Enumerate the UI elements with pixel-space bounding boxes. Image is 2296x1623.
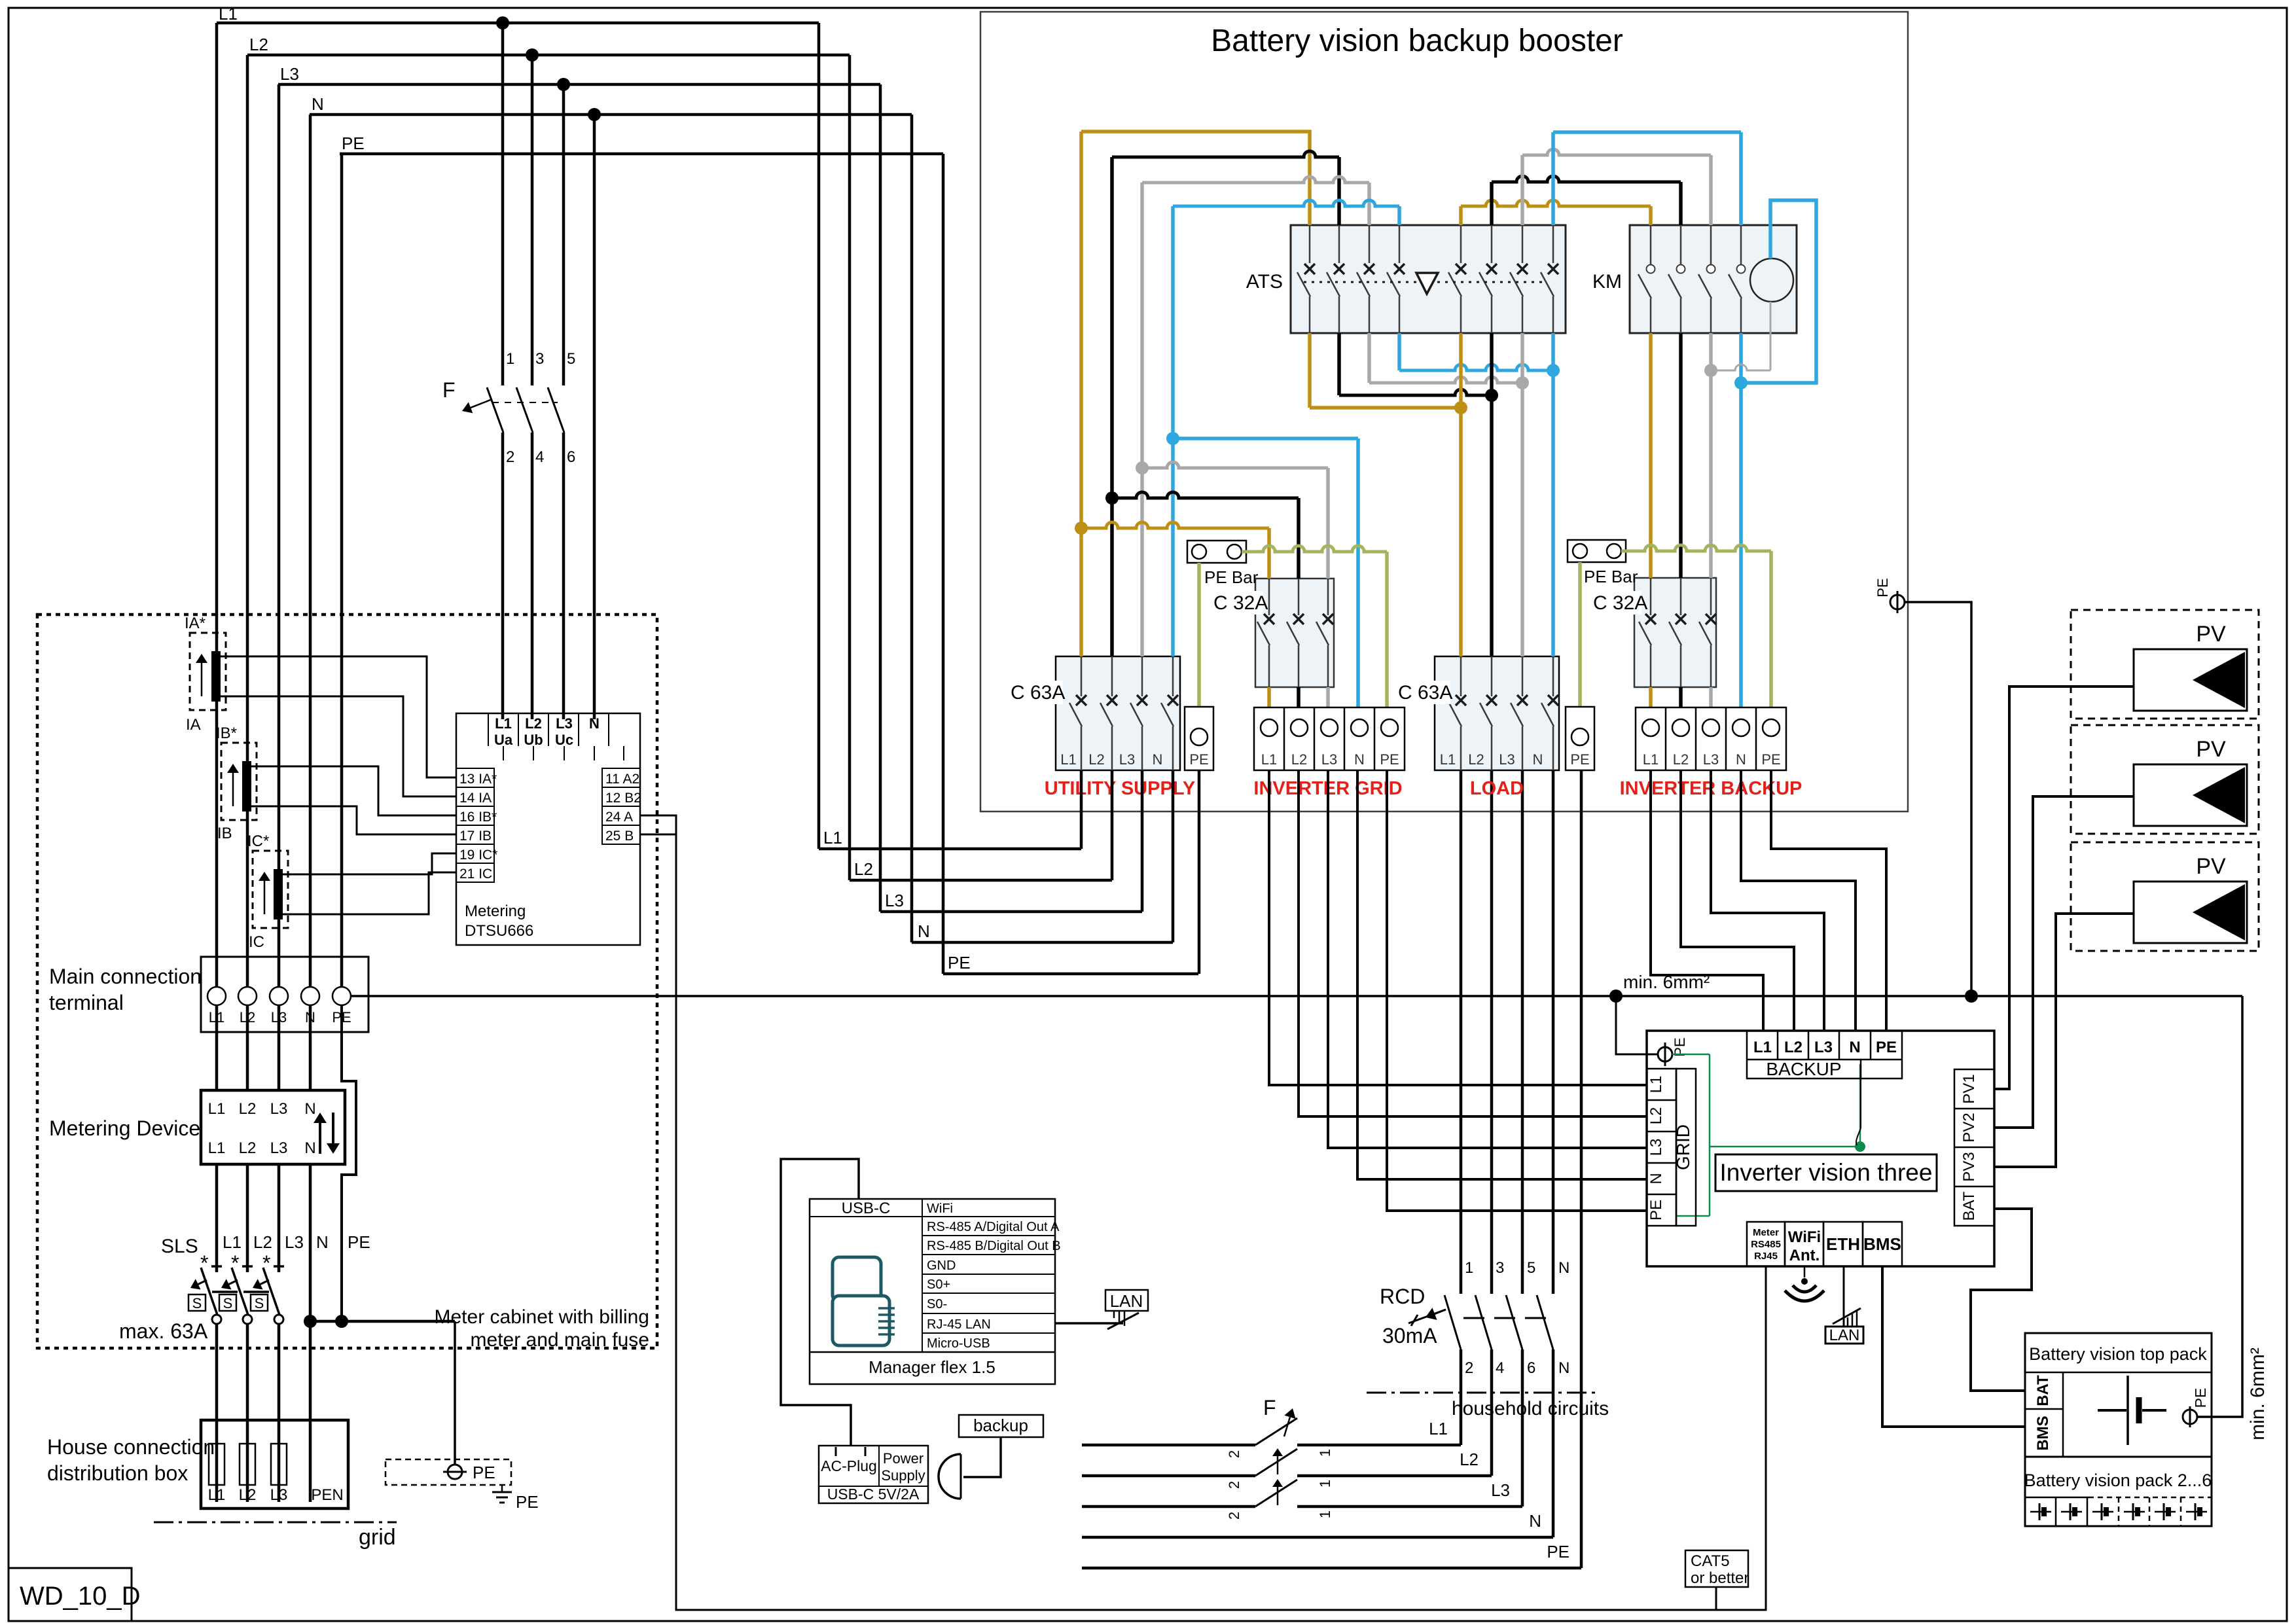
svg-text:PE: PE [348,1232,370,1252]
svg-text:S0+: S0+ [927,1277,950,1292]
svg-text:PE Bar: PE Bar [1584,567,1638,586]
svg-text:Battery vision top pack: Battery vision top pack [2029,1344,2207,1364]
svg-text:Ua: Ua [494,732,513,748]
svg-text:14 IA: 14 IA [459,791,492,806]
svg-text:IC*: IC* [247,832,269,850]
svg-text:N: N [316,1232,329,1252]
svg-text:L1: L1 [1440,751,1456,768]
svg-text:RJ-45 LAN: RJ-45 LAN [927,1317,991,1332]
svg-text:Micro-USB: Micro-USB [927,1336,990,1351]
svg-text:L2: L2 [525,715,542,732]
svg-text:1: 1 [1317,1449,1333,1457]
svg-text:Manager flex 1.5: Manager flex 1.5 [869,1357,996,1377]
svg-text:4: 4 [535,448,544,466]
svg-text:IA: IA [186,716,201,734]
svg-text:L3: L3 [1321,751,1337,768]
svg-text:N: N [1354,751,1365,768]
svg-text:N: N [589,715,600,732]
svg-text:PE: PE [948,953,971,972]
svg-text:BMS: BMS [2034,1416,2052,1450]
svg-text:Supply: Supply [881,1467,925,1484]
svg-text:L2: L2 [239,1100,257,1118]
svg-text:KM: KM [1592,271,1622,293]
svg-text:L1: L1 [1647,1076,1665,1094]
svg-text:meter and main fuse: meter and main fuse [471,1329,649,1351]
svg-text:BAT: BAT [1960,1191,1978,1221]
svg-text:C 63A: C 63A [1398,682,1452,704]
svg-text:PE: PE [1874,578,1891,597]
svg-text:L3: L3 [1499,751,1515,768]
svg-text:N: N [1736,751,1746,768]
svg-text:LOAD: LOAD [1470,778,1524,799]
svg-text:RCD: RCD [1380,1285,1425,1308]
svg-text:L2: L2 [1460,1450,1479,1469]
svg-text:C 32A: C 32A [1213,592,1268,614]
svg-text:C 63A: C 63A [1011,682,1065,704]
svg-text:S: S [255,1295,264,1311]
svg-text:L3: L3 [1703,751,1719,768]
svg-text:L1: L1 [208,1139,226,1157]
svg-text:2: 2 [1226,1512,1242,1520]
svg-text:PE: PE [1761,751,1780,768]
svg-text:12 B2: 12 B2 [605,791,641,806]
svg-text:IB: IB [217,825,232,842]
svg-text:1: 1 [506,350,514,368]
svg-text:L1: L1 [223,1232,242,1252]
svg-text:S: S [223,1295,233,1311]
svg-text:PE: PE [342,134,365,153]
svg-text:SLS: SLS [161,1236,198,1257]
svg-text:N: N [918,921,930,941]
svg-text:PE: PE [2192,1388,2209,1408]
svg-text:PV: PV [2196,622,2226,647]
svg-text:L3: L3 [1814,1039,1833,1056]
svg-text:ETH: ETH [1826,1234,1860,1254]
svg-text:3: 3 [1496,1259,1504,1277]
svg-text:Metering: Metering [465,902,526,920]
svg-text:PV1: PV1 [1960,1074,1978,1103]
svg-text:F: F [442,378,456,402]
svg-text:L3: L3 [1491,1480,1510,1500]
svg-text:WiFi: WiFi [927,1202,953,1216]
svg-text:L2: L2 [239,1486,257,1504]
svg-text:RS-485 A/Digital Out A: RS-485 A/Digital Out A [927,1220,1060,1234]
svg-text:13 IA*: 13 IA* [459,772,497,787]
svg-text:N: N [1529,1511,1541,1531]
svg-text:max. 63A: max. 63A [119,1319,208,1343]
svg-text:PEN: PEN [311,1486,343,1504]
svg-text:PE: PE [516,1492,539,1512]
svg-text:RS-485 B/Digital Out B: RS-485 B/Digital Out B [927,1239,1061,1253]
svg-text:6: 6 [1527,1359,1535,1377]
svg-text:S: S [192,1295,202,1311]
svg-text:House connection: House connection [47,1435,215,1459]
svg-text:17 IB: 17 IB [459,829,492,844]
svg-text:PV2: PV2 [1960,1113,1978,1142]
svg-text:BACKUP: BACKUP [1766,1059,1841,1079]
svg-text:PV3: PV3 [1960,1152,1978,1181]
svg-text:2: 2 [1226,1450,1242,1458]
svg-text:Meter cabinet with billing: Meter cabinet with billing [435,1306,650,1328]
svg-text:5: 5 [567,350,575,368]
svg-text:F: F [1263,1396,1276,1419]
svg-text:Main connection: Main connection [49,965,202,988]
svg-text:L3: L3 [270,1139,288,1157]
svg-text:IB*: IB* [216,724,237,742]
svg-text:2: 2 [1465,1359,1473,1377]
svg-text:PE: PE [1876,1039,1897,1056]
svg-text:1: 1 [1317,1480,1333,1488]
svg-text:Meter: Meter [1753,1227,1779,1238]
svg-text:N: N [312,94,324,114]
svg-text:PE: PE [1380,751,1399,768]
svg-text:L1: L1 [1753,1039,1772,1056]
svg-text:1: 1 [1317,1510,1333,1518]
svg-text:Battery vision backup booster: Battery vision backup booster [1211,24,1623,58]
svg-text:24 A: 24 A [605,810,633,825]
svg-text:USB-C 5V/2A: USB-C 5V/2A [827,1486,920,1503]
svg-text:WD_10_D: WD_10_D [20,1582,141,1611]
svg-text:L1: L1 [1261,751,1277,768]
svg-text:Inverter vision three: Inverter vision three [1720,1159,1933,1186]
svg-text:S0-: S0- [927,1297,947,1311]
svg-text:4: 4 [1496,1359,1504,1377]
svg-text:L1: L1 [219,4,238,24]
svg-text:2: 2 [1226,1481,1242,1489]
svg-text:L2: L2 [1647,1107,1665,1125]
svg-text:25 B: 25 B [605,829,634,844]
svg-text:L2: L2 [854,859,873,879]
svg-text:N: N [304,1100,315,1118]
svg-text:L1: L1 [208,1100,226,1118]
svg-text:terminal: terminal [49,991,124,1014]
svg-text:RS485: RS485 [1751,1239,1781,1250]
svg-text:L2: L2 [1784,1039,1803,1056]
svg-text:grid: grid [359,1525,396,1550]
svg-text:N: N [304,1139,315,1157]
svg-text:IA*: IA* [185,615,206,632]
svg-text:L1: L1 [1643,751,1659,768]
svg-text:PE: PE [1189,751,1208,768]
svg-text:PE: PE [1570,751,1589,768]
svg-text:CAT5: CAT5 [1691,1552,1730,1570]
svg-text:L3: L3 [270,1486,288,1504]
svg-text:PE: PE [1647,1200,1665,1221]
svg-text:BAT: BAT [2034,1375,2052,1406]
svg-text:L2: L2 [1468,751,1484,768]
svg-text:L1: L1 [823,828,842,847]
svg-text:L3: L3 [1119,751,1135,768]
svg-text:AC-Plug: AC-Plug [821,1457,877,1474]
svg-text:N: N [1558,1359,1570,1377]
svg-text:L3: L3 [556,715,573,732]
svg-text:DTSU666: DTSU666 [465,922,533,940]
svg-text:L3: L3 [285,1232,304,1252]
svg-text:PE: PE [1547,1542,1570,1561]
svg-text:6: 6 [567,448,575,466]
svg-text:N: N [1558,1259,1570,1277]
svg-text:21 IC: 21 IC [459,866,492,882]
svg-text:PE: PE [473,1463,495,1482]
svg-text:LAN: LAN [1829,1327,1860,1344]
svg-text:LAN: LAN [1110,1291,1143,1311]
svg-text:ATS: ATS [1246,271,1283,293]
svg-text:C 32A: C 32A [1593,592,1647,614]
svg-text:N: N [1849,1039,1860,1056]
svg-text:BMS: BMS [1863,1234,1901,1254]
svg-text:5: 5 [1527,1259,1535,1277]
svg-text:PV: PV [2196,854,2226,879]
svg-text:GND: GND [927,1258,956,1273]
svg-text:Battery vision pack 2...6: Battery vision pack 2...6 [2024,1471,2212,1490]
svg-text:L2: L2 [253,1232,272,1252]
svg-text:L2: L2 [239,1139,257,1157]
svg-text:Ub: Ub [524,732,543,748]
svg-text:WiFi: WiFi [1788,1228,1821,1246]
svg-text:30mA: 30mA [1382,1324,1437,1347]
svg-text:3: 3 [535,350,544,368]
svg-text:min. 6mm²: min. 6mm² [2247,1347,2269,1440]
svg-text:GRID: GRID [1673,1124,1693,1170]
svg-text:L2: L2 [1088,751,1104,768]
svg-text:PE Bar: PE Bar [1204,567,1259,587]
svg-text:11 A2: 11 A2 [605,772,639,787]
svg-text:Ant.: Ant. [1789,1247,1820,1264]
svg-text:Metering Device: Metering Device [49,1116,200,1140]
svg-text:USB-C: USB-C [842,1200,891,1217]
svg-text:RJ45: RJ45 [1754,1251,1778,1262]
svg-text:L3: L3 [1647,1139,1665,1156]
svg-text:L1: L1 [1060,751,1076,768]
svg-text:L2: L2 [1673,751,1689,768]
svg-text:L3: L3 [270,1100,288,1118]
svg-text:L3: L3 [280,64,299,84]
svg-text:19 IC*: 19 IC* [459,847,497,863]
svg-text:L1: L1 [1429,1419,1448,1438]
svg-text:16 IB*: 16 IB* [459,810,497,825]
svg-text:IC: IC [249,933,264,951]
svg-text:or better: or better [1691,1569,1749,1587]
svg-text:2: 2 [506,448,514,466]
svg-text:Uc: Uc [555,732,573,748]
svg-text:N: N [1153,751,1163,768]
svg-text:N: N [1533,751,1543,768]
svg-text:L2: L2 [1291,751,1307,768]
svg-text:distribution box: distribution box [47,1461,188,1485]
svg-text:Power: Power [883,1450,924,1467]
svg-text:backup: backup [973,1416,1028,1435]
svg-text:L3: L3 [885,891,904,910]
svg-text:PV: PV [2196,737,2226,762]
svg-text:N: N [1647,1173,1665,1184]
svg-text:household circuits: household circuits [1452,1398,1609,1419]
svg-text:L1: L1 [208,1486,226,1504]
svg-text:1: 1 [1465,1259,1473,1277]
svg-text:L1: L1 [495,715,512,732]
svg-text:L2: L2 [249,35,268,54]
